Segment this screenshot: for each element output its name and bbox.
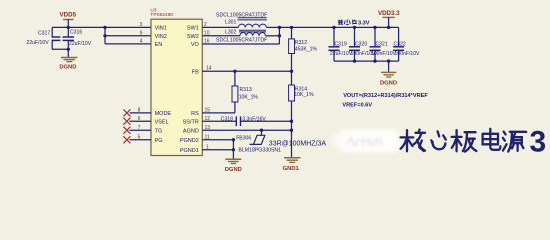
- op-amp U1 : regulator chip U3 TPS62480 body: [150, 7, 202, 155]
- node R312 tap: [290, 26, 293, 29]
- svg-text:PGND2: PGND2: [180, 138, 199, 144]
- title char 核: [401, 130, 426, 152]
- svg-text:TG: TG: [155, 128, 163, 134]
- node VIN branch junction: [103, 26, 106, 29]
- node gnd C320: [353, 59, 356, 62]
- svg-text:VIN2: VIN2: [155, 34, 167, 40]
- svg-text:C318: C318: [221, 117, 233, 123]
- svg-text:DGND: DGND: [59, 64, 76, 70]
- power VDD5: [60, 12, 77, 28]
- svg-text:3.3V: 3.3V: [358, 20, 370, 26]
- title char 源: [503, 132, 526, 152]
- node SS/TR: [290, 120, 293, 123]
- wire VO: [202, 43, 279, 45]
- chip pin names right: [180, 26, 200, 154]
- node gnd C321: [373, 59, 376, 62]
- wire PGND2: [202, 139, 233, 141]
- svg-text:SW2: SW2: [187, 34, 199, 40]
- svg-text:VSEL: VSEL: [155, 119, 169, 125]
- node gnd rail junction: [67, 48, 70, 51]
- wire output gnd rail: [334, 60, 399, 62]
- wire PG: [130, 139, 152, 141]
- resistor R312: [289, 27, 318, 71]
- node PGND2: [232, 138, 235, 141]
- svg-text:C319: C319: [335, 41, 347, 47]
- svg-text:14: 14: [206, 65, 212, 71]
- svg-text:C320: C320: [355, 41, 367, 47]
- smudge erased watermark: [332, 130, 400, 153]
- capacitor C320: [349, 27, 376, 61]
- node PGND1: [232, 148, 235, 151]
- svg-text:MODE: MODE: [155, 111, 172, 117]
- wire VDD5 rail: [52, 26, 151, 28]
- svg-text:100nF/10V: 100nF/10V: [395, 51, 421, 57]
- node FB/R313: [233, 70, 236, 73]
- ground GND1: [283, 157, 301, 172]
- svg-text:TPS62480: TPS62480: [150, 12, 173, 18]
- svg-text:FB306: FB306: [236, 136, 251, 142]
- wire TG: [130, 129, 152, 131]
- svg-text:C322: C322: [394, 41, 406, 47]
- svg-text:C316: C316: [70, 30, 82, 36]
- svg-text:SS/TR: SS/TR: [183, 119, 199, 125]
- node C319 tap: [332, 26, 335, 29]
- svg-text:L301: L301: [225, 19, 236, 25]
- svg-text:VOUT=(R312+R314)/R314*VREF: VOUT=(R312+R314)/R314*VREF: [343, 93, 428, 99]
- ferrite bead FB306: [236, 130, 326, 153]
- node bus SW1: [278, 26, 281, 29]
- svg-text:VIN1: VIN1: [155, 26, 167, 32]
- wire MODE: [130, 112, 152, 114]
- svg-text:SDCL1005CR47JTDF: SDCL1005CR47JTDF: [216, 37, 267, 43]
- wire FB: [202, 70, 291, 72]
- ground DGND input: [59, 58, 77, 71]
- pin numbers right: [204, 22, 212, 150]
- ground DGND output: [380, 72, 397, 86]
- node AGND/bead: [260, 129, 263, 132]
- svg-text:VREF=0.6V: VREF=0.6V: [342, 103, 372, 109]
- resistor R313: [232, 71, 258, 113]
- svg-text:3: 3: [140, 22, 143, 28]
- node VDD5/C316 junction: [67, 26, 70, 29]
- power VDD3.3: [378, 10, 400, 27]
- node FB/R312 R314: [290, 70, 293, 73]
- svg-text:EN: EN: [155, 42, 163, 48]
- svg-text:22uF/10V: 22uF/10V: [69, 41, 92, 47]
- node bus SW2: [278, 34, 281, 37]
- capacitor C321: [370, 27, 397, 61]
- svg-text:PGND1: PGND1: [180, 148, 199, 154]
- svg-text:R312: R312: [295, 40, 307, 46]
- wire VIN branch vertical: [104, 27, 106, 44]
- svg-text:100nF/10V: 100nF/10V: [371, 51, 397, 57]
- svg-text:22uF/10V: 22uF/10V: [27, 40, 50, 46]
- inductor L302: [239, 30, 266, 36]
- svg-text:SW1: SW1: [187, 26, 199, 32]
- wire SS/TR left: [202, 120, 236, 122]
- node VDD3.3 tap: [387, 26, 390, 29]
- svg-text:VDD5: VDD5: [60, 12, 77, 19]
- node AGND/GND1: [290, 129, 293, 132]
- svg-text:453K_1%: 453K_1%: [295, 47, 318, 53]
- wire output bus vertical: [278, 27, 280, 44]
- svg-text:DGND: DGND: [380, 81, 397, 87]
- wire to DGND: [67, 49, 69, 57]
- resistor R314: [289, 71, 315, 157]
- svg-text:4: 4: [140, 39, 143, 45]
- wire VIN2: [105, 35, 151, 37]
- svg-text:VO: VO: [191, 42, 200, 48]
- wire PGND to DGND: [232, 140, 234, 159]
- pin numbers left: [138, 22, 143, 140]
- capacitor C322: [393, 27, 420, 61]
- svg-text:GND1: GND1: [283, 166, 300, 172]
- svg-text:AGND: AGND: [183, 128, 199, 134]
- svg-text:FB: FB: [192, 69, 199, 75]
- chip pin names left: [155, 26, 172, 144]
- wire EN: [105, 43, 151, 45]
- svg-text:DGND: DGND: [225, 167, 242, 173]
- wire to DGND output: [388, 61, 390, 72]
- net label 核心板3.3V: [338, 19, 370, 26]
- wire output rail: [279, 26, 398, 28]
- svg-text:22uF/10V: 22uF/10V: [330, 51, 353, 57]
- capacitor C316: [63, 27, 92, 49]
- wire input gnd rail: [52, 48, 68, 50]
- node gnd drop: [387, 59, 390, 62]
- svg-text:3: 3: [530, 126, 547, 159]
- svg-text:BLM18PG330SN1: BLM18PG330SN1: [238, 148, 281, 154]
- capacitor C318: [221, 116, 267, 126]
- wire VSEL: [130, 120, 152, 122]
- title 核心板电源3: [401, 129, 527, 152]
- svg-text:L302: L302: [225, 30, 236, 36]
- svg-text:R313: R313: [240, 87, 252, 93]
- capacitor C319: [329, 27, 353, 61]
- node VIN2 junction: [103, 34, 106, 37]
- wire AGND: [202, 129, 291, 131]
- ground DGND chip: [225, 159, 242, 173]
- wire L302 to bus: [266, 35, 280, 37]
- title char 心: [431, 131, 446, 149]
- wire SW1: [202, 26, 238, 28]
- capacitor C317: [27, 27, 61, 49]
- svg-text:C317: C317: [38, 30, 50, 36]
- node C320 tap: [353, 26, 356, 29]
- wire SS/TR right: [241, 120, 292, 122]
- svg-text:RS: RS: [191, 111, 199, 117]
- wire RS: [202, 112, 235, 114]
- svg-text:10K_1%: 10K_1%: [294, 92, 314, 98]
- svg-text:SDCL1005CR47JTDF: SDCL1005CR47JTDF: [216, 12, 267, 18]
- inductor L301: [238, 18, 267, 28]
- svg-text:VDD3.3: VDD3.3: [378, 10, 400, 17]
- svg-text:10K_1%: 10K_1%: [239, 95, 259, 101]
- svg-text:C321: C321: [376, 41, 388, 47]
- no-connect X pins MODE VSEL TG PG: [123, 109, 130, 143]
- title char 电: [483, 129, 501, 150]
- wire L301 to bus: [266, 26, 279, 28]
- node C321 tap: [373, 26, 376, 29]
- title char 板: [452, 130, 477, 151]
- wire PGND1: [202, 149, 233, 151]
- svg-text:9: 9: [140, 30, 143, 36]
- svg-text:PG: PG: [155, 138, 163, 144]
- wire SW2: [202, 35, 240, 37]
